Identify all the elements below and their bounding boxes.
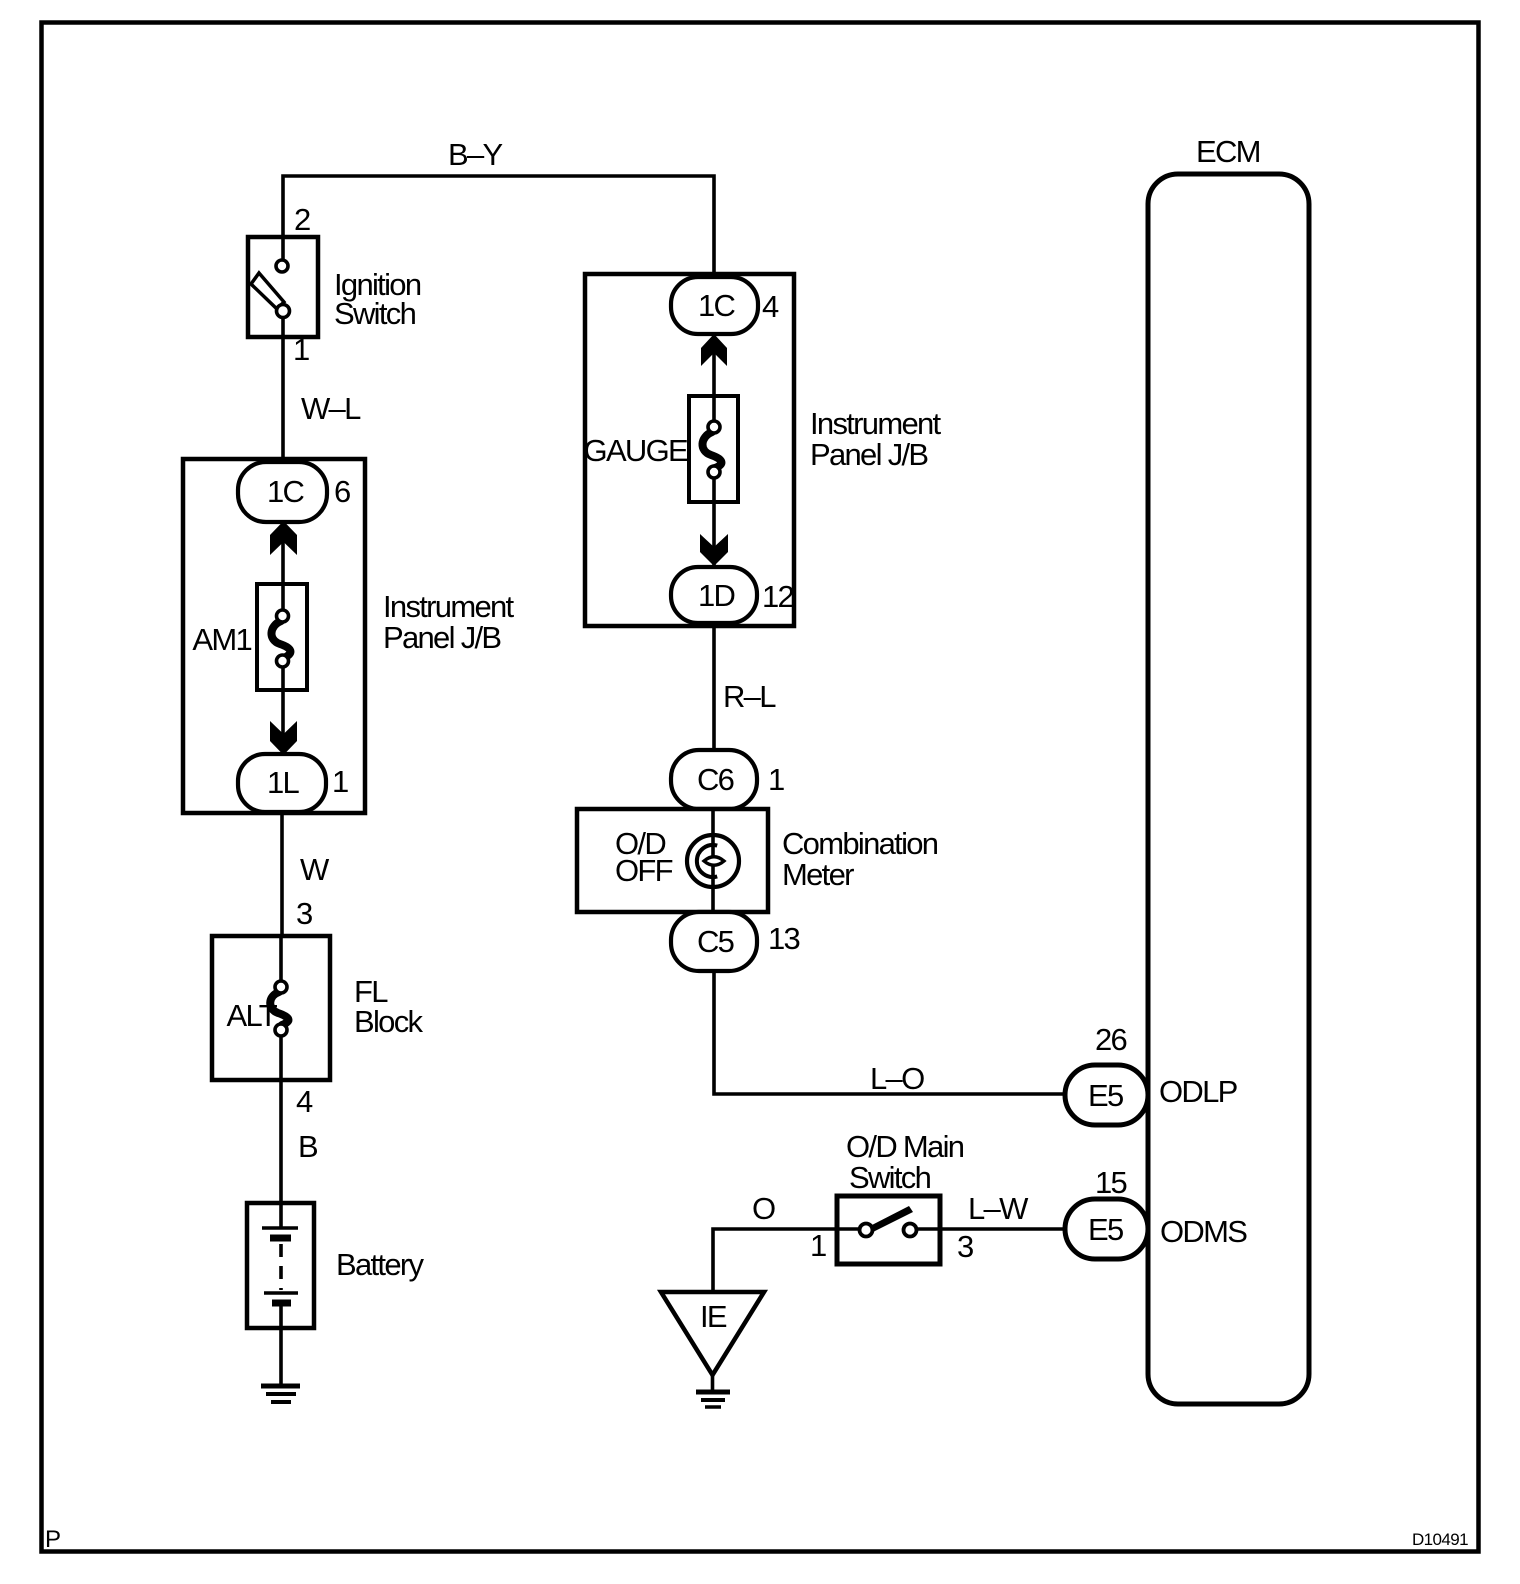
svg-text:3: 3	[957, 1229, 973, 1264]
svg-text:4: 4	[762, 289, 779, 324]
svg-text:R–L: R–L	[723, 679, 776, 714]
svg-text:1D: 1D	[698, 578, 735, 613]
svg-text:O: O	[752, 1191, 775, 1226]
wire B-Y from ignition switch to gauge J/B	[283, 176, 714, 278]
ground IE	[696, 1390, 730, 1395]
ignition switch lever	[251, 273, 284, 309]
svg-text:Switch: Switch	[334, 296, 416, 331]
battery wire bottom	[279, 1303, 283, 1386]
svg-text:L–W: L–W	[968, 1191, 1029, 1226]
arrow up	[270, 521, 297, 555]
connector 1L oval	[238, 754, 326, 812]
svg-text:Panel J/B: Panel J/B	[383, 620, 501, 655]
instrument panel J/B box (right, GAUGE)	[585, 274, 794, 626]
svg-text:Switch: Switch	[849, 1160, 931, 1195]
O/D main switch box	[837, 1196, 940, 1264]
svg-text:D10491: D10491	[1412, 1530, 1468, 1549]
svg-text:ALT: ALT	[227, 998, 278, 1033]
svg-text:IE: IE	[700, 1299, 727, 1334]
svg-text:Instrument: Instrument	[810, 406, 942, 441]
connector E5 ODLP oval	[1065, 1065, 1148, 1125]
ignition switch contact bottom	[277, 305, 290, 318]
svg-text:W: W	[300, 852, 330, 887]
svg-text:L–O: L–O	[870, 1061, 924, 1096]
wire through meter	[711, 809, 715, 912]
svg-text:C5: C5	[697, 924, 734, 959]
fuse AM1 symbol	[271, 621, 290, 658]
arrow down	[270, 721, 297, 755]
svg-text:12: 12	[762, 579, 794, 614]
svg-text:GAUGE: GAUGE	[584, 433, 688, 468]
wire in FL block	[279, 936, 283, 983]
svg-text:1: 1	[332, 764, 348, 799]
svg-text:B: B	[298, 1129, 318, 1164]
battery box	[247, 1203, 314, 1328]
svg-text:C6: C6	[697, 762, 734, 797]
wire through gauge J/B	[712, 278, 716, 423]
wire out of switch	[281, 317, 285, 337]
svg-text:P: P	[45, 1526, 60, 1553]
svg-text:ODMS: ODMS	[1160, 1214, 1247, 1249]
wire 1D to C6	[712, 623, 716, 753]
fuse GAUGE box	[689, 396, 738, 502]
svg-text:Instrument: Instrument	[383, 589, 515, 624]
svg-text:6: 6	[334, 474, 350, 509]
wire ignition to J/B	[281, 337, 285, 465]
svg-text:15: 15	[1095, 1165, 1127, 1200]
svg-text:1C: 1C	[698, 288, 736, 323]
svg-text:1: 1	[293, 332, 309, 367]
svg-text:ECM: ECM	[1196, 134, 1260, 169]
arrow up (gauge)	[701, 334, 727, 366]
combination meter box	[577, 809, 768, 912]
battery plate top long	[262, 1226, 298, 1230]
svg-text:13: 13	[768, 921, 800, 956]
battery cell dashes	[279, 1244, 283, 1290]
fuse GAUGE symbol	[702, 432, 721, 468]
svg-text:OFF: OFF	[615, 853, 673, 888]
connector E5 ODMS oval	[1065, 1199, 1148, 1259]
battery plate bottom short thick	[272, 1300, 291, 1307]
switch contact right	[904, 1224, 917, 1237]
ignition switch IG box	[248, 237, 318, 337]
instrument panel J/B box (left)	[183, 459, 365, 813]
svg-text:W–L: W–L	[301, 391, 361, 426]
svg-text:4: 4	[296, 1084, 313, 1119]
svg-text:Block: Block	[354, 1004, 424, 1039]
svg-text:B–Y: B–Y	[448, 137, 503, 172]
svg-text:26: 26	[1095, 1022, 1127, 1057]
battery plate top short thick	[270, 1235, 291, 1242]
connector C5 oval	[671, 912, 757, 971]
wire IE apex to ground	[711, 1375, 715, 1392]
svg-text:E5: E5	[1088, 1212, 1123, 1247]
svg-text:AM1: AM1	[192, 622, 251, 657]
svg-text:Combination: Combination	[782, 826, 938, 861]
switch lever	[870, 1206, 913, 1232]
fuse ALT symbol	[270, 992, 288, 1025]
switch contact left	[860, 1224, 873, 1237]
svg-text:3: 3	[296, 896, 312, 931]
wire C5 to ECM ODLP	[714, 970, 1066, 1094]
svg-text:1: 1	[768, 762, 784, 797]
ECM box	[1148, 174, 1309, 1404]
arrow down (gauge)	[700, 534, 728, 566]
connector 1C oval	[238, 462, 327, 522]
wire J/B to FL block	[280, 812, 284, 938]
wire switch to E5 ODMS	[915, 1227, 1066, 1231]
svg-text:ODLP: ODLP	[1159, 1074, 1238, 1109]
svg-text:1C: 1C	[267, 474, 305, 509]
svg-text:1: 1	[810, 1228, 826, 1263]
O/D OFF indicator bulb	[687, 835, 739, 887]
battery wire top	[279, 1203, 283, 1228]
svg-text:E5: E5	[1088, 1078, 1123, 1113]
svg-text:2: 2	[294, 202, 310, 237]
FL block box	[212, 936, 330, 1080]
svg-text:Panel J/B: Panel J/B	[810, 437, 928, 472]
wire into switch	[281, 237, 285, 261]
wire through J/B	[281, 462, 285, 612]
connector 1C oval (gauge)	[671, 277, 758, 334]
svg-text:O/D Main: O/D Main	[846, 1129, 964, 1164]
svg-text:Meter: Meter	[782, 857, 854, 892]
svg-text:Battery: Battery	[336, 1247, 425, 1282]
ground triangle IE	[661, 1292, 764, 1375]
connector C6 oval	[671, 750, 757, 809]
ground battery	[261, 1384, 300, 1389]
connector 1D oval	[671, 567, 757, 623]
battery plate bottom long	[264, 1291, 298, 1295]
fuse AM1 box	[257, 584, 307, 690]
ignition switch contact top	[276, 260, 288, 272]
svg-text:1L: 1L	[267, 765, 300, 800]
wire IE to O/D main switch	[713, 1229, 861, 1291]
